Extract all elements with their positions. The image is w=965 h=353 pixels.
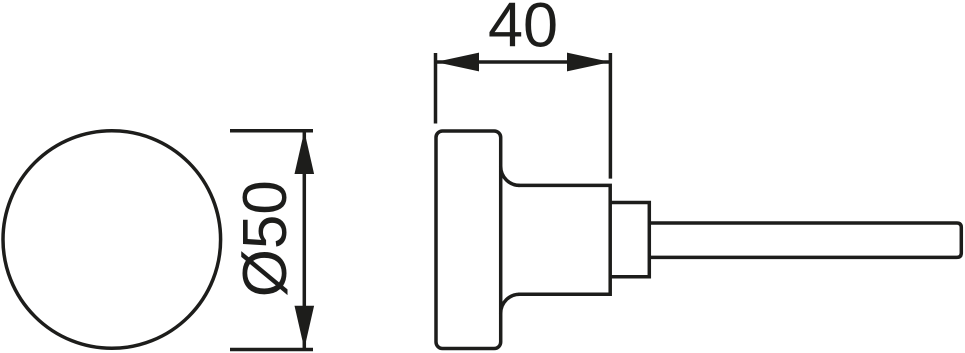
extension line bottom (Ø50) xyxy=(230,348,313,352)
arrowhead right (40) xyxy=(567,53,610,72)
extension line right (40) xyxy=(609,53,613,179)
dimension line 40 horizontal xyxy=(436,60,611,64)
spindle rod xyxy=(649,223,961,257)
dimension line Ø50 vertical xyxy=(303,131,307,349)
svg-text:Ø50: Ø50 xyxy=(231,180,300,297)
knob face rounded rect (side view) xyxy=(436,131,501,349)
step collar xyxy=(610,203,649,277)
knob body outline xyxy=(518,185,610,294)
arrowhead down (Ø50) xyxy=(295,306,315,349)
front view circle Ø50 xyxy=(3,131,221,349)
arrowhead up (Ø50) xyxy=(295,131,315,174)
extension line left (40) xyxy=(434,53,438,124)
neck top fillet xyxy=(501,166,520,185)
arrowhead left (40) xyxy=(436,53,479,72)
extension line top (Ø50) xyxy=(230,129,313,133)
neck bottom fillet xyxy=(501,294,520,313)
svg-text:40: 40 xyxy=(488,0,558,61)
